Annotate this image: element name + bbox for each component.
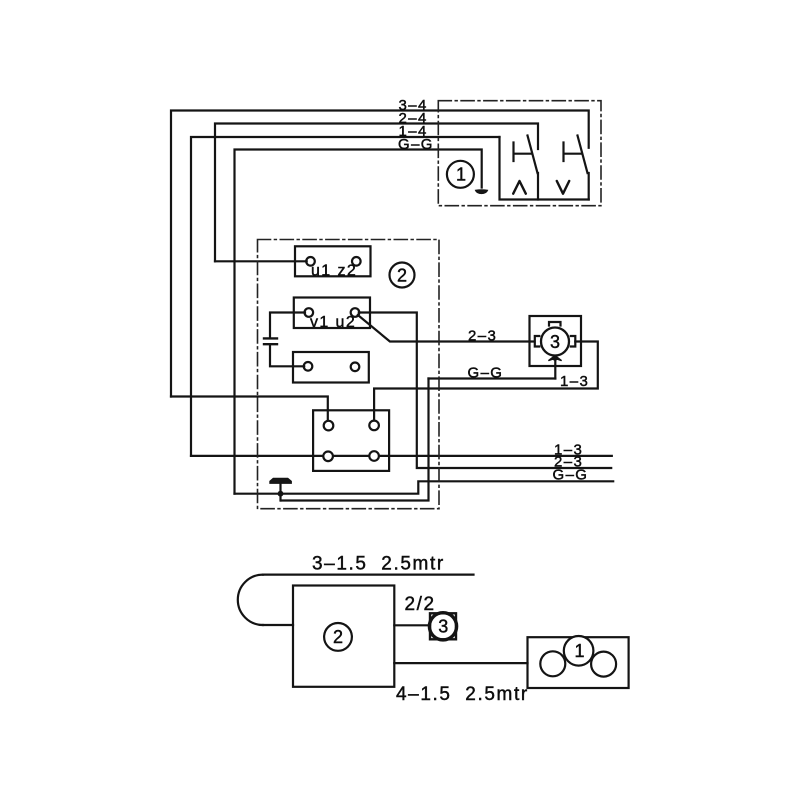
- wire 2-4: stub into u1 z2 terminal: [215, 260, 307, 262]
- svg-text:3: 3: [550, 332, 560, 352]
- enclosure box unit 1 (dash-dot): [438, 101, 601, 206]
- cable to capacitor unit 3: [394, 624, 430, 626]
- terminal box lower (unlabelled): [293, 352, 369, 383]
- terminal X1-3: [323, 452, 333, 462]
- wire 2-4: horizontal run to left switch: [215, 124, 538, 262]
- up arrow symbol: [513, 181, 526, 194]
- earth electrode symbol PE: [270, 478, 292, 483]
- terminal box v1 u2: [294, 298, 370, 329]
- svg-text:v1 u2: v1 u2: [310, 314, 356, 331]
- capacitor C1 wire from v1: [270, 313, 305, 339]
- svg-text:3–1.5 2.5mtr: 3–1.5 2.5mtr: [312, 554, 445, 575]
- designator circle 2 (block): [324, 623, 352, 651]
- svg-text:1–3: 1–3: [560, 373, 589, 390]
- motor left bracket pin: [535, 336, 540, 347]
- motor M circle 3: [541, 328, 569, 356]
- cable 3-core: into control box: [263, 624, 293, 626]
- wire 2-3: diagonal from u2 to motor feed: [358, 315, 535, 342]
- capacitor C1 plates: [264, 338, 277, 344]
- down arrow symbol: [557, 181, 569, 194]
- designator circle 1: [447, 161, 474, 188]
- wire G-G: ground bus to bundle: [235, 481, 614, 493]
- terminal z2: [352, 257, 361, 266]
- wire G-G: motor branch horizontal: [429, 377, 556, 379]
- earth stem: [279, 483, 281, 500]
- switch S2 down: blade: [578, 136, 588, 174]
- terminal block X1: [313, 410, 389, 471]
- terminal X1-4: [369, 451, 379, 461]
- control box 2 (block diagram): [293, 586, 394, 687]
- svg-text:2: 2: [333, 627, 343, 647]
- svg-text:G–G: G–G: [468, 364, 504, 381]
- svg-text:2/2: 2/2: [405, 594, 436, 615]
- svg-text:G–G: G–G: [398, 136, 434, 153]
- switch unit circle left: [540, 651, 565, 676]
- terminal X1-1: [324, 421, 334, 431]
- terminal right: [351, 363, 360, 372]
- cable 4-core to switch unit 1: [394, 662, 527, 664]
- switch S2 down: lower stem: [588, 173, 590, 200]
- svg-text:4–1.5 2.5mtr: 4–1.5 2.5mtr: [396, 684, 529, 705]
- designator circle 2: [390, 263, 415, 288]
- cable 3-core: top run: [263, 573, 474, 575]
- terminal box u1 z2: [295, 246, 371, 276]
- switch S1 up: left frame and bottom bar: [500, 137, 589, 200]
- wire 3-4: top horizontal run from left riser to right switch: [171, 111, 589, 397]
- motor earth arrow: [549, 356, 561, 361]
- svg-text:2: 2: [397, 265, 407, 285]
- svg-text:1: 1: [575, 641, 585, 661]
- svg-text:3: 3: [438, 617, 448, 637]
- motor M box: [530, 316, 582, 366]
- svg-text:G–G: G–G: [553, 466, 589, 483]
- motor top bracket: [549, 322, 561, 326]
- terminal left: [304, 362, 313, 371]
- switch S1 up: lower stem: [537, 173, 539, 200]
- wire 2-3: from u2 terminal to riser: [359, 313, 611, 469]
- wire 1-3: motor right pin to terminal block top-right: [374, 342, 598, 421]
- switch S2 down: fixed contact: [564, 143, 582, 162]
- enclosure box unit 2 (dash-dot): [258, 240, 440, 509]
- switch unit circle middle: [564, 636, 594, 666]
- motor earth stem / wire G-G up: [554, 358, 556, 379]
- switch S1 up: blade: [528, 136, 538, 174]
- wire G-G: run to switch-box earth: [235, 150, 482, 494]
- terminal u2: [351, 308, 360, 317]
- wire 3-4: lower run into terminal block top-left: [171, 397, 328, 422]
- wire 1-4: run to switch common: [191, 137, 500, 456]
- capacitor C1 wire to lower box: [270, 344, 304, 366]
- terminal v1: [305, 308, 314, 317]
- capacitor unit 3: square: [430, 613, 456, 639]
- wire 1-3 bundle line through terminal block bottom row: [191, 455, 612, 457]
- switch unit circle right: [591, 652, 616, 677]
- wire G-G: riser down to ground bus: [281, 379, 429, 501]
- svg-text:2–3: 2–3: [468, 327, 497, 344]
- terminal X1-2: [369, 421, 379, 431]
- terminal u1: [306, 257, 315, 266]
- switch S1 up: fixed contact: [514, 143, 532, 162]
- motor right bracket pin: [571, 336, 576, 347]
- capacitor unit 3: circle: [429, 613, 456, 640]
- earth symbol in box 1: [475, 190, 487, 194]
- switch unit 1 (block diagram) box: [528, 637, 629, 688]
- svg-text:1: 1: [456, 165, 466, 185]
- svg-text:u1 z2: u1 z2: [311, 263, 357, 280]
- junction node G: [278, 491, 284, 497]
- cable 3-core: U-bend: [238, 575, 263, 625]
